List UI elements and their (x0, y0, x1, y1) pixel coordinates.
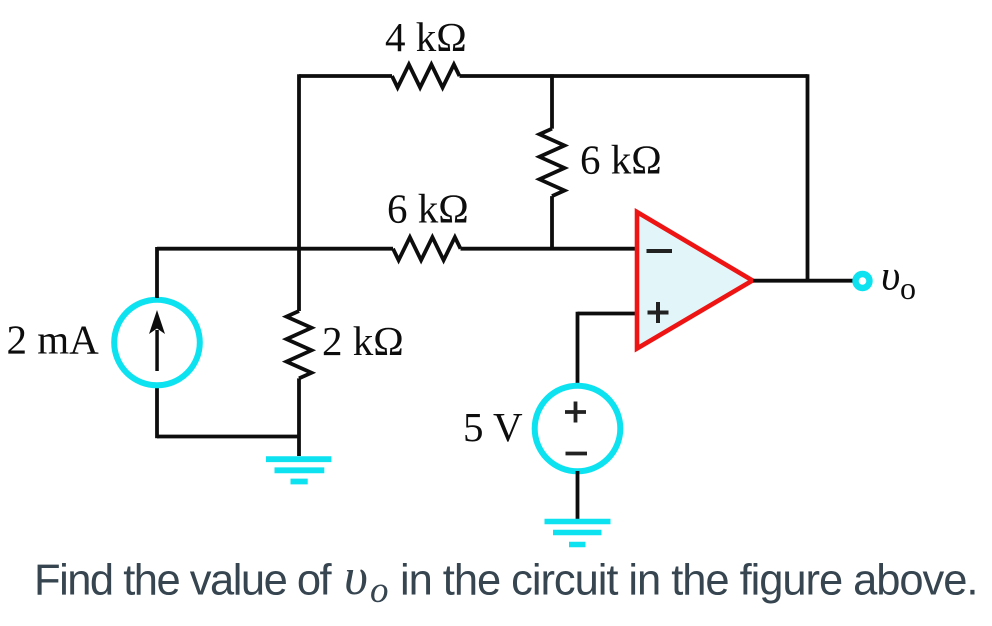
svg-text:2 mA: 2 mA (7, 317, 100, 363)
ground G2 (545, 522, 611, 545)
svg-text:6 kΩ: 6 kΩ (387, 186, 469, 232)
voltage source V1 minus sign (566, 452, 588, 456)
wire middle (inverting input) right segment (461, 247, 639, 251)
svg-text:4 kΩ: 4 kΩ (385, 14, 467, 60)
voltage source V1 circle (535, 386, 621, 472)
op-amp U1 body (637, 212, 753, 349)
caption text (34, 549, 977, 611)
wire vertical 6 kOhm branch upper (550, 74, 554, 128)
ground G1 (266, 459, 331, 481)
wire middle (inverting input) left segment (157, 247, 393, 251)
output terminal node vo (856, 274, 870, 288)
current source I1 circle (114, 300, 200, 386)
wire left vertical above current source (155, 247, 159, 298)
wire left vertical upper (node A branch) (297, 74, 301, 311)
resistor 2 kOhm zigzag (287, 311, 312, 378)
svg-text:in the circuit in the figure a: in the circuit in the figure above. (400, 557, 977, 605)
svg-text:υ: υ (881, 254, 900, 300)
wire left vertical below current source (155, 387, 159, 438)
svg-text:υ: υ (344, 549, 368, 606)
voltage source V1 plus sign (565, 402, 586, 423)
wire 2 kOhm to ground (297, 378, 301, 456)
svg-text:o: o (900, 270, 916, 306)
resistor 4 kOhm zigzag (392, 65, 460, 88)
wire feedback vertical right (806, 74, 810, 280)
svg-text:5 V: 5 V (463, 404, 523, 450)
op-amp U1 non-inverting input plus sign (648, 302, 669, 323)
wire op-amp output (753, 279, 853, 283)
svg-text:2 kΩ: 2 kΩ (322, 318, 404, 364)
wire non-inverting input horizontal (578, 312, 639, 316)
wire non-inverting input vertical (576, 312, 580, 386)
svg-text:6 kΩ: 6 kΩ (580, 137, 662, 183)
op-amp U1 inverting input minus sign (647, 249, 673, 253)
svg-text:o: o (370, 570, 389, 611)
wire top feedback horizontal (left segment) (299, 74, 392, 78)
wire vertical 6 kOhm branch lower (550, 196, 554, 250)
resistor 6 kOhm horizontal zigzag (393, 237, 461, 260)
wire bottom left (157, 435, 299, 439)
wire top feedback horizontal (right segment) (460, 74, 808, 78)
wire voltage source to ground (576, 471, 580, 519)
svg-text:Find the value of: Find the value of (34, 557, 333, 605)
label vo (881, 254, 916, 307)
current source I1 arrow (149, 310, 165, 371)
resistor 6 kOhm vertical zigzag (540, 129, 565, 196)
